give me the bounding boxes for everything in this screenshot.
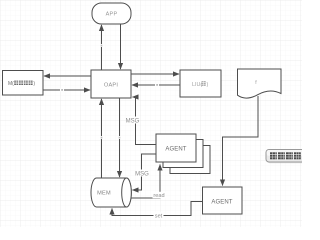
wire APP-OAPI down arrow xyxy=(120,24,122,69)
svg-text:MSG: MSG xyxy=(135,171,149,177)
label MSG2 xyxy=(135,170,149,178)
wire OAPI-MEM up arrow xyxy=(100,99,103,178)
wire OAPI-M top (arrow into M) xyxy=(44,75,91,77)
label MSG1 xyxy=(126,117,140,125)
wire F-doc to AGENT2 elbow xyxy=(223,96,259,186)
node APP (rounded) xyxy=(92,3,131,24)
wire set elbow AGENT2 to MEM xyxy=(112,202,203,216)
node AGENT stack back 3 xyxy=(170,146,210,174)
node AGENT stack back 2 xyxy=(163,140,203,168)
node AGENT2 bottom right xyxy=(203,187,243,214)
wire MSG elbow AGENT to MEM xyxy=(133,154,157,190)
svg-text:M(: M( xyxy=(8,81,14,87)
zoom indicator button 显示比例 xyxy=(266,150,307,164)
node OAPI xyxy=(91,70,131,98)
node F document xyxy=(238,69,282,98)
node AGENT stack front xyxy=(156,134,196,162)
node LIU xyxy=(180,70,221,97)
wire OAPI-MEM down arrow xyxy=(118,98,121,177)
svg-text:read: read xyxy=(153,193,164,199)
svg-text:AGENT: AGENT xyxy=(211,199,232,205)
node MEM cylinder xyxy=(91,178,131,207)
wire OAPI-LIU top (arrow into LIU) xyxy=(131,73,179,75)
wire LIU-OAPI bottom (arrow into OAPI) xyxy=(132,83,180,86)
wire read elbow MEM to AGENT xyxy=(129,165,160,199)
svg-text:set: set xyxy=(155,214,163,220)
svg-text:APP: APP xyxy=(106,12,118,18)
svg-text:): ) xyxy=(207,82,209,88)
node M (main server) xyxy=(3,71,44,96)
svg-text:OAPI: OAPI xyxy=(104,82,118,88)
label read xyxy=(153,192,166,199)
svg-text:MEM: MEM xyxy=(97,190,111,196)
svg-text:AGENT: AGENT xyxy=(165,146,186,152)
label set xyxy=(154,212,164,219)
svg-text:LIU(: LIU( xyxy=(192,82,202,88)
wire APP-OAPI up arrow xyxy=(100,25,103,70)
wire M-OAPI bottom (arrow into OAPI) xyxy=(43,88,90,91)
wire MSG elbow AGENT to OAPI xyxy=(133,97,157,145)
svg-text:MSG: MSG xyxy=(126,118,140,124)
